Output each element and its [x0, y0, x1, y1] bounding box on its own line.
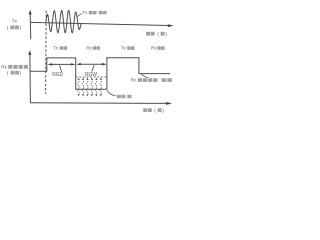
svg-text:Tx: Tx — [121, 46, 127, 51]
svg-text:Tx: Tx — [82, 10, 88, 15]
svg-text:Tx: Tx — [12, 19, 18, 25]
svg-text:RGW: RGW — [85, 72, 97, 78]
svg-text:Rx: Rx — [131, 78, 137, 83]
svg-text:Rx: Rx — [1, 65, 7, 70]
svg-text:Rx: Rx — [86, 46, 92, 51]
svg-text:Rx: Rx — [151, 46, 157, 51]
svg-text:Tx: Tx — [53, 46, 59, 51]
svg-text:RGD: RGD — [52, 72, 63, 78]
